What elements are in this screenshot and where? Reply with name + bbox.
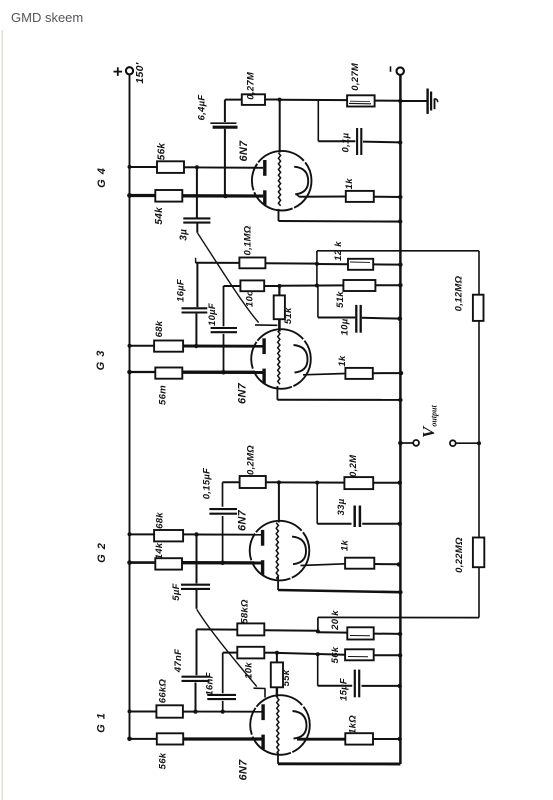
svg-text:14k: 14k xyxy=(154,542,165,559)
svg-text:0,1MΩ: 0,1MΩ xyxy=(242,225,253,255)
svg-text:1k: 1k xyxy=(344,178,355,190)
node C11 grid1 junction xyxy=(221,710,225,714)
svg-text:0,27M: 0,27M xyxy=(246,71,257,100)
svg-text:3µ: 3µ xyxy=(178,229,189,241)
wire cathode U3 to R19 xyxy=(301,564,346,566)
resistor R10 100 xyxy=(240,280,264,291)
node output right junction xyxy=(477,441,481,445)
node R19 bus junction xyxy=(397,562,401,566)
capacitor C3 0.1u xyxy=(356,128,358,155)
node stage3 plate junction xyxy=(277,480,281,484)
svg-text:10k: 10k xyxy=(244,662,255,679)
node C3 bus junction xyxy=(398,140,402,144)
svg-text:G 1: G 1 xyxy=(96,712,108,733)
wire cathode to R5 xyxy=(297,194,300,196)
resistor R23 10k xyxy=(237,647,264,659)
wire stage1 grid-2 (thick) xyxy=(182,194,263,197)
capacitor C6 10u (bypass) xyxy=(355,305,357,333)
wire C9 lower stub xyxy=(196,590,198,609)
node output bus junction xyxy=(398,441,403,446)
resistor R12 68k xyxy=(154,341,183,352)
wire 56k row right (stage4) xyxy=(277,653,345,655)
capacitor C1 6.4uF xyxy=(210,122,236,124)
wire R16 to bus xyxy=(373,482,400,484)
wire R23 to 55k junction xyxy=(264,652,277,654)
wire plate row right (stage3) xyxy=(279,481,345,483)
wire 66k left lead xyxy=(130,711,157,713)
svg-text:0,27M: 0,27M xyxy=(350,62,361,91)
svg-text:16µF: 16µF xyxy=(176,279,187,302)
wire 0.1M row left xyxy=(196,262,240,264)
node stage1 return bus junction xyxy=(398,219,402,223)
wire 100ohm row left xyxy=(224,285,241,287)
wire C8 left lead xyxy=(317,523,351,525)
resistor R2 54k xyxy=(155,190,182,202)
wire R5 to bus xyxy=(374,196,401,198)
wire 20k tap drop xyxy=(317,617,319,631)
wire ground stub xyxy=(400,100,426,102)
wire R10 to plate junction xyxy=(264,285,279,287)
node stage1 grid-2 bus junction xyxy=(127,193,132,198)
node R14 bus junction xyxy=(399,371,403,375)
wire 14k left lead (thick) xyxy=(130,561,156,564)
node 51k row x317 junction xyxy=(315,284,319,288)
svg-text:68k: 68k xyxy=(154,320,165,337)
node C6 bus junction xyxy=(398,316,403,321)
node R24 bus junction xyxy=(398,653,402,657)
resistor R6 0.1M xyxy=(239,258,265,269)
node stage2 plate junction xyxy=(278,284,282,288)
tube U4 6N7 xyxy=(250,695,310,755)
wire R17 right lead xyxy=(183,533,196,535)
tube U2 6N7 xyxy=(251,329,311,389)
resistor R18 14k xyxy=(155,558,182,569)
wire C8 to bus xyxy=(362,523,400,525)
wire 68k left lead xyxy=(130,345,155,347)
wire diagonal coupling to stage2 grid xyxy=(198,233,259,323)
svg-text:150′: 150′ xyxy=(134,62,146,83)
terminal +150V (plus terminal) xyxy=(126,67,133,74)
node 55k top junction xyxy=(275,651,279,655)
svg-text:5µF: 5µF xyxy=(171,583,182,600)
node x317 junction (stage3) xyxy=(315,481,319,485)
wire C12 left lead xyxy=(318,685,353,687)
node R7 bus junction xyxy=(398,262,402,266)
wire diagonal coupling to stage4 grid xyxy=(197,609,257,686)
svg-text:0,12MΩ: 0,12MΩ xyxy=(454,275,465,311)
wire C3 to bus xyxy=(363,141,400,144)
wire C7 to grid2 xyxy=(222,516,224,563)
node stage2 grid2 bus dot xyxy=(127,370,132,375)
svg-text:G 4: G 4 xyxy=(96,167,108,188)
wire junction to coupling cap C2 xyxy=(196,167,198,218)
svg-text:54k: 54k xyxy=(154,207,165,225)
wire 0.2M row left xyxy=(223,481,240,483)
resistor R11 51k (vertical) xyxy=(274,295,285,319)
svg-text:Voutput: Voutput xyxy=(419,405,439,438)
node x318 junction (stage4) xyxy=(316,652,320,656)
capacitor C5 10uF xyxy=(211,327,237,329)
wire 10k row left xyxy=(223,652,238,654)
svg-text:0,2M: 0,2M xyxy=(348,454,359,477)
svg-text:6N7: 6N7 xyxy=(237,509,249,531)
wire R6 to x317 junction xyxy=(265,262,317,264)
svg-text:6N7: 6N7 xyxy=(236,382,248,404)
wire 51k row left xyxy=(280,284,344,286)
svg-text:56k: 56k xyxy=(330,646,341,663)
svg-text:55k: 55k xyxy=(281,669,292,686)
wire far right line to output xyxy=(478,321,480,443)
svg-text:10o: 10o xyxy=(245,290,256,307)
wire R3 right lead xyxy=(265,99,280,101)
svg-text:56k: 56k xyxy=(157,143,168,161)
wire grid cap line x197 xyxy=(196,263,198,307)
resistor R7 12k xyxy=(348,259,373,270)
wire plate row right xyxy=(280,99,348,101)
wire 56k left lead (stage4) xyxy=(130,738,157,740)
wire stage2 grid-1 (thick) xyxy=(183,345,263,348)
node C7 grid2 junction xyxy=(220,561,225,566)
wire R9 to bus xyxy=(375,284,400,286)
wire main right bus xyxy=(399,75,402,764)
svg-text:1k: 1k xyxy=(340,540,351,552)
wire 20k junction to R22 xyxy=(318,631,347,633)
wire R15 to plate junction xyxy=(266,481,279,483)
wire plate top corner to C1 xyxy=(224,100,226,122)
resistor R20 0.22M (vertical) xyxy=(473,538,484,568)
wire tap row to 0.12M xyxy=(317,250,479,252)
wire plate drop into tube U3 xyxy=(278,482,280,522)
terminal output right xyxy=(450,440,456,446)
wire cathode U4 to R28 (thick) xyxy=(297,738,345,741)
node 16uF junction xyxy=(194,344,198,348)
wire stage3 grid-1 xyxy=(197,534,263,536)
resistor R3 0.27M (left) xyxy=(242,94,265,105)
node C8 bus junction xyxy=(398,522,402,526)
svg-text:58kΩ: 58kΩ xyxy=(239,599,250,624)
wire R28 to bus xyxy=(373,738,400,740)
svg-text:66kΩ: 66kΩ xyxy=(157,678,168,703)
wire cathode U2 to R14 xyxy=(303,374,345,375)
resistor R16 0.2M (right) xyxy=(344,477,373,489)
wire far right line lower xyxy=(478,443,480,537)
wire 56k right lead xyxy=(184,166,197,168)
svg-text:33µ: 33µ xyxy=(336,498,347,515)
svg-text:0,22MΩ: 0,22MΩ xyxy=(454,537,465,573)
resistor R5 1k xyxy=(346,191,374,202)
tube U3 6N7 xyxy=(250,521,310,581)
wire 56k left lead (stage2) xyxy=(130,371,156,373)
node stage3 return bus junction xyxy=(398,590,402,594)
svg-text:0,2MΩ: 0,2MΩ xyxy=(246,445,257,475)
node R28 bus junction xyxy=(398,737,402,741)
resistor R28 1kohm xyxy=(345,733,373,744)
wire C4 lower stub xyxy=(195,314,197,346)
resistor R15 0.2M (left) xyxy=(240,476,266,488)
wire stage3 grid-2 (thick) xyxy=(182,561,263,565)
svg-text:16nF: 16nF xyxy=(205,672,216,695)
wire x317 riser xyxy=(316,251,318,286)
svg-text:G 3: G 3 xyxy=(95,350,107,371)
capacitor C7 0.15uF xyxy=(209,508,237,510)
terminal output left xyxy=(413,440,419,446)
resistor R9 51k (horizontal) xyxy=(343,280,375,291)
wire R7 to bus xyxy=(373,263,400,265)
svg-text:10µ: 10µ xyxy=(340,318,351,335)
wire C5 drop x2235 xyxy=(223,286,225,326)
capacitor C12 15uF xyxy=(354,670,356,698)
node R9 bus junction xyxy=(398,283,402,287)
wire C1 to grid-2 junction xyxy=(224,129,226,196)
wire C12 to bus xyxy=(362,685,401,687)
wire C7 top drop xyxy=(222,482,224,507)
wire x318 drop to C12 xyxy=(317,655,319,686)
node C12 bus junction xyxy=(398,684,402,688)
wire R11 to tube U2 (thick) xyxy=(278,319,281,331)
resistor R26 66kohm xyxy=(156,705,183,717)
wire R22 to bus xyxy=(374,633,401,635)
wire x317 to R7 xyxy=(317,263,348,265)
capacitor C4 16uF xyxy=(182,307,208,309)
wire 56k left lead xyxy=(130,166,158,168)
wire bypass drop x318 xyxy=(317,100,319,141)
node stage3 grid1 bus dot xyxy=(128,532,132,536)
node stage4 grid1 junction xyxy=(193,709,197,713)
svg-text:6N7: 6N7 xyxy=(237,759,249,781)
node stage1 grid-1 bus junction xyxy=(128,165,132,169)
svg-text:0,1µ: 0,1µ xyxy=(340,132,351,152)
wire left supply bus xyxy=(129,75,131,740)
node stage4 grid1 bus dot xyxy=(128,709,132,713)
svg-text:6N7: 6N7 xyxy=(238,140,250,162)
svg-text:68k: 68k xyxy=(155,512,166,529)
svg-text:6,4µF: 6,4µF xyxy=(197,95,208,121)
wire C6 left lead xyxy=(318,317,355,319)
ground xyxy=(426,89,428,114)
svg-text:1k: 1k xyxy=(337,355,348,367)
resistor R19 1k (stage3) xyxy=(345,558,374,569)
svg-text:51k: 51k xyxy=(335,291,346,308)
node stage2 grid1 bus dot xyxy=(128,344,132,348)
wire stage4 return xyxy=(277,753,279,764)
wire 0.1M row tick xyxy=(195,258,197,263)
wire C2 lower stub xyxy=(196,223,198,233)
wire output left stub xyxy=(400,442,413,444)
wire plate drop into tube U1 xyxy=(279,100,281,153)
resistor R13 56k (stage2) xyxy=(155,368,182,379)
node C1 grid-2 junction xyxy=(223,194,228,199)
wire 54k left lead (thick) xyxy=(130,194,156,197)
node stage4 grid2 bus dot xyxy=(127,737,132,742)
capacitor C10 47nF xyxy=(182,676,210,678)
svg-text:56k: 56k xyxy=(157,752,168,769)
node R4 bus junction xyxy=(398,99,402,103)
wire 55k upper lead xyxy=(276,653,278,663)
node x317 junction (stage2) xyxy=(315,262,319,266)
wire output right stub xyxy=(456,442,479,444)
node stage1 plate junction xyxy=(278,98,282,102)
resistor R1 56k xyxy=(157,161,184,173)
capacitor C11 16nF xyxy=(207,694,236,696)
wire 47nF line upper xyxy=(196,629,198,675)
terminal minus (top right) xyxy=(397,67,404,74)
page left margin rule xyxy=(2,30,4,800)
resistor R21 58k xyxy=(237,623,264,635)
wire R24 to bus xyxy=(374,654,401,656)
wire R19 to bus xyxy=(374,563,400,565)
resistor R27 56k (stage4) xyxy=(157,733,183,744)
wire R26 right lead xyxy=(183,711,196,713)
wire R14 to bus xyxy=(373,372,401,374)
wire C6 to bus xyxy=(362,317,400,320)
svg-text:56m: 56m xyxy=(157,385,168,405)
wire x317 drop (stage3) xyxy=(316,483,318,524)
wire stage3 return xyxy=(277,577,279,591)
wire C11 lower stub xyxy=(222,701,224,711)
wire plate row left xyxy=(225,99,242,101)
tube U1 6N7 xyxy=(252,151,312,211)
wire 58k row left xyxy=(197,628,238,630)
wire stage2 grid-2 (thick) xyxy=(182,371,263,374)
svg-text:10µF: 10µF xyxy=(207,303,218,326)
svg-text:15µF: 15µF xyxy=(339,678,350,701)
wire 20k tap row xyxy=(318,616,479,618)
node stage1 grid-1 junction xyxy=(195,165,199,169)
wire R21 to 20k junction xyxy=(264,629,318,632)
svg-text:51k: 51k xyxy=(283,307,294,324)
wire plate junction to R11 xyxy=(278,286,280,295)
wire to C3 left plate xyxy=(318,140,355,142)
node R22 bus junction xyxy=(398,632,402,636)
svg-text:20 k: 20 k xyxy=(330,610,341,631)
wire stage4 grid-2 (thick) xyxy=(183,737,262,740)
svg-text:1kΩ: 1kΩ xyxy=(348,715,359,734)
wire x318 drop to C6 xyxy=(317,286,319,318)
wire C11 drop xyxy=(222,653,224,694)
wire stage1 return xyxy=(278,209,280,221)
svg-text:G 2: G 2 xyxy=(96,542,108,563)
wire 47nF line lower xyxy=(195,683,197,712)
capacitor C2 3uF xyxy=(183,217,210,219)
resistor R4 0.27M (right) xyxy=(347,95,375,106)
capacitor C9 5uF xyxy=(181,584,210,586)
node stage2 return bus junction xyxy=(398,398,402,402)
node 58k row junction xyxy=(316,629,320,633)
wire far right line to 20k tap xyxy=(478,567,480,617)
resistor R8 0.12M (vertical) xyxy=(473,295,484,321)
svg-text:47nF: 47nF xyxy=(173,649,184,673)
page title xyxy=(11,10,83,25)
resistor R24 56k (right) xyxy=(345,649,374,660)
resistor R14 1k (stage2) xyxy=(345,368,372,379)
wire 55k to tube U4 (thick) xyxy=(276,687,278,697)
node R16 bus junction xyxy=(398,481,402,485)
node stage3 grid1 junction xyxy=(194,532,198,536)
node C5 grid2 junction xyxy=(221,370,226,375)
wire R4 to bus xyxy=(375,100,401,102)
wire stage2 return xyxy=(276,386,278,400)
capacitor C8 33u xyxy=(353,506,356,528)
resistor R22 20k xyxy=(347,627,373,639)
wire C5 lower stub xyxy=(223,334,225,372)
wire stage4 grid-1 xyxy=(196,711,263,713)
resistor R17 68k (stage3) xyxy=(154,530,183,541)
svg-text:0,15µF: 0,15µF xyxy=(202,468,213,500)
node R5 bus junction xyxy=(398,195,402,199)
wire 68k left lead (stage3) xyxy=(130,533,155,535)
resistor R25 55k (vertical) xyxy=(271,662,283,687)
node stage3 grid2 bus dot xyxy=(127,560,132,565)
wire far right line upper xyxy=(478,251,480,295)
wire stage1 grid-1 xyxy=(197,166,263,168)
wire junction to C9 xyxy=(196,535,198,584)
